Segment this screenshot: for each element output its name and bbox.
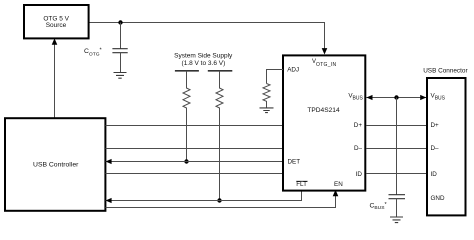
wire DET to controller xyxy=(106,161,284,163)
svg-text:DET: DET xyxy=(288,158,301,165)
wire VOTG from OTG source to TPD4S214 top xyxy=(88,23,324,49)
svg-text:D+: D+ xyxy=(354,122,363,129)
svg-text:CBUS*: CBUS* xyxy=(370,202,388,211)
svg-text:Source: Source xyxy=(46,22,67,29)
svg-text:EN: EN xyxy=(334,181,343,188)
wire ADJ xyxy=(267,70,284,84)
svg-text:System Side Supply: System Side Supply xyxy=(174,53,233,60)
wire VBUS TPD4S214 to connector xyxy=(366,97,426,99)
TPD4S214 block xyxy=(283,55,365,190)
OTG 5 V Source block xyxy=(24,5,89,38)
capacitor C_OTG xyxy=(112,23,127,73)
svg-text:D+: D+ xyxy=(431,122,440,129)
wire ID TPD4S214 to connector xyxy=(366,173,426,175)
svg-text:FLT: FLT xyxy=(296,181,307,188)
wire D- TPD4S214 to connector xyxy=(366,148,426,150)
svg-text:ADJ: ADJ xyxy=(287,67,299,74)
resistor R2 (FLT pull-up) xyxy=(216,71,223,201)
resistor R_ADJ xyxy=(263,84,270,108)
ground (ADJ resistor) xyxy=(260,108,274,113)
svg-text:D–: D– xyxy=(431,145,440,152)
wire D- controller to TPD4S214 xyxy=(106,148,284,150)
wire ID controller to TPD4S214 xyxy=(106,173,284,175)
arrowhead VBUS into TPD4S214 xyxy=(366,95,372,100)
arrowhead FLT into controller xyxy=(106,198,112,203)
svg-text:D–: D– xyxy=(354,145,363,152)
node VOTG junction xyxy=(118,20,122,24)
arrowhead VOTG down into TPD4S214 xyxy=(322,48,328,54)
wire D+ controller to TPD4S214 xyxy=(106,125,284,127)
USB Connector block xyxy=(427,78,466,215)
svg-text:USB Controller: USB Controller xyxy=(33,161,79,168)
node junction R1/DET xyxy=(184,159,188,163)
USB Controller block xyxy=(5,118,105,211)
ground (C_OTG) xyxy=(114,73,127,79)
svg-text:(1.8 V to 3.6 V): (1.8 V to 3.6 V) xyxy=(182,60,226,67)
svg-text:ID: ID xyxy=(356,171,363,178)
wire USB controller to OTG source xyxy=(54,44,56,119)
arrowhead EN up into TPD4S214 xyxy=(333,190,339,196)
svg-text:USB Connector: USB Connector xyxy=(423,68,468,75)
supply rail bar 1 xyxy=(175,70,199,72)
svg-text:GND: GND xyxy=(431,195,445,202)
node junction VBUS/C_BUS xyxy=(394,95,398,99)
svg-text:TPD4S214: TPD4S214 xyxy=(307,107,340,114)
arrowhead DET into controller xyxy=(106,159,112,164)
ground (C_BUS) xyxy=(390,217,403,223)
svg-text:COTG*: COTG* xyxy=(84,47,103,57)
node junction R2/FLT xyxy=(217,198,221,202)
wire FLT to controller xyxy=(106,190,302,201)
svg-text:ID: ID xyxy=(431,171,438,178)
wire EN from controller xyxy=(106,196,336,208)
wire D+ TPD4S214 to connector xyxy=(366,125,426,127)
supply rail bar 2 xyxy=(208,70,233,72)
arrowhead VBUS into connector xyxy=(420,95,426,100)
resistor R1 (DET pull-up) xyxy=(183,71,190,162)
arrowhead up into OTG source xyxy=(52,38,58,44)
capacitor C_BUS xyxy=(389,98,406,218)
